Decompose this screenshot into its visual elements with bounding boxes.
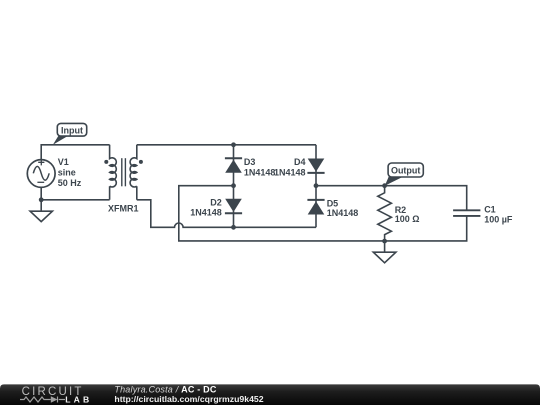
svg-text:V1: V1	[58, 157, 69, 167]
svg-text:LAB: LAB	[65, 394, 92, 404]
svg-text:1N4148: 1N4148	[190, 207, 222, 217]
svg-text:D4: D4	[294, 157, 306, 167]
svg-text:C1: C1	[484, 205, 496, 215]
svg-text:http://circuitlab.com/cqrgrmzu: http://circuitlab.com/cqrgrmzu9k452	[114, 394, 263, 404]
svg-text:XFMR1: XFMR1	[108, 204, 139, 214]
svg-text:D2: D2	[210, 198, 222, 208]
svg-text:100 µF: 100 µF	[484, 214, 513, 224]
svg-text:sine: sine	[58, 168, 76, 178]
svg-text:50 Hz: 50 Hz	[58, 178, 82, 188]
svg-text:D3: D3	[244, 157, 256, 167]
svg-text:1N4148: 1N4148	[274, 167, 306, 177]
svg-text:D5: D5	[327, 198, 339, 208]
svg-text:Output: Output	[391, 165, 421, 175]
svg-text:1N4148: 1N4148	[327, 208, 359, 218]
svg-text:100 Ω: 100 Ω	[395, 214, 420, 224]
svg-text:1N4148: 1N4148	[244, 167, 276, 177]
svg-text:Thalyra.Costa / AC - DC: Thalyra.Costa / AC - DC	[114, 384, 216, 394]
svg-text:Input: Input	[61, 125, 83, 135]
